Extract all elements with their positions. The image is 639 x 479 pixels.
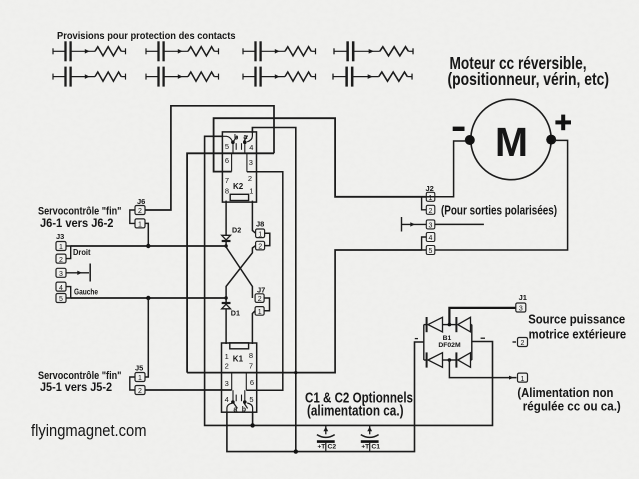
svg-text:6: 6 [225,156,229,165]
svg-text:2: 2 [429,208,433,215]
relay K2 pin numbers right [248,143,253,196]
relay K2 coil [230,194,248,200]
junction: Droit wire at D2 [224,244,227,247]
svg-text:2: 2 [225,362,229,371]
svg-text:B1: B1 [443,335,452,342]
svg-text:J7: J7 [257,285,265,294]
wire: motor plus to J2 pin 5 [435,140,568,250]
relay K2 contact a (pivot, arm, fixed stubs) [242,133,253,154]
connector J1 pin 2 [518,338,528,347]
relay K1 pin numbers right [249,351,254,404]
RC snubber network unit 5 (capacitor + resistor) [53,67,126,87]
jumper bracket J6 pins 2-1 [130,210,135,223]
RC snubber network unit 4 (capacitor + resistor) [334,41,413,61]
connector J8 pin 1 [256,229,265,238]
svg-text:J5: J5 [135,364,143,373]
motor plus polarity mark [555,115,571,131]
connector J6 pin 1 [135,219,145,228]
RC snubber network unit 6 (capacitor + resistor) [146,67,219,87]
junction: J6-1 on Droit wire [146,244,150,248]
svg-text:1: 1 [138,375,142,382]
junction: J5-1 riser on Gauche wire [146,296,150,300]
jumper bracket J2 pins 1-2 [422,197,427,210]
svg-text:2: 2 [138,388,142,395]
svg-text:3: 3 [59,271,63,278]
wire stub: J2 pin 3 left with terminal bar [402,217,427,232]
relay K2 inner column walls [232,153,247,172]
tick: B1 left AC terminal [415,338,418,340]
wire: J6-2 up and over to K2 contact row [145,106,274,210]
svg-text:1: 1 [59,244,63,251]
svg-text:5: 5 [225,142,229,151]
connector J2 pin 5 [426,246,435,255]
junction: B1 top node [448,323,452,327]
relay K2 body [222,132,256,202]
svg-text:M: M [495,119,528,165]
bridge rectifier B1 right rail [471,325,473,360]
RC snubber network unit 7 (capacitor + resistor) [243,67,316,87]
wire: K2 pin 2 down to K1 pin 5 row [246,172,282,390]
connector J8 pin 2 [256,241,265,250]
svg-text:3: 3 [519,306,523,313]
svg-text:1: 1 [225,352,229,361]
wire: J6-1 drop to Droit wire [145,223,148,246]
svg-text:K1: K1 [233,355,244,364]
wire: B1 bottom node to J1 pin 1 [449,360,516,378]
connector J2 pin 4 [426,233,435,242]
svg-text:J8: J8 [256,220,264,229]
svg-text:2: 2 [59,257,63,264]
svg-text:2: 2 [138,208,142,215]
arrow tick at J1 pin 1 [509,376,514,380]
motor left terminal node [465,135,475,145]
wire: J5-2 to K1 pin 4 row [145,389,232,391]
connector J5 pin 2 [135,386,145,395]
capacitor C1 bottom lead [369,443,371,452]
jumper bracket J3 pins 1-2 [66,246,71,259]
svg-text:6: 6 [250,378,254,387]
wire: motor minus to J2 pin 1 [426,141,466,197]
tick: B1 right terminal [481,337,485,339]
connector J3 pin 4 [56,282,66,291]
capacitor C2 straight plate [317,440,335,443]
relay K1 contact a (pivot, arm, fixed stubs) [227,390,238,411]
svg-text:5: 5 [59,296,63,303]
svg-text:4: 4 [249,143,253,152]
connector J3 pin 3 [56,268,66,277]
svg-text:Gauche: Gauche [74,287,98,297]
svg-text:1: 1 [258,231,262,238]
svg-text:DF02M: DF02M [438,342,461,349]
svg-text:D1: D1 [231,308,240,317]
relay K1 inner column walls [232,373,247,391]
capacitor C2 curved plate [317,435,335,438]
svg-text:(Pour sorties polarisées): (Pour sorties polarisées) [441,203,557,217]
connector J5 pin 1 [135,373,145,382]
svg-text:Source puissance: Source puissance [528,311,625,326]
relay K1 body [222,343,257,412]
bridge diode bottom-left [427,352,443,367]
svg-text:4: 4 [59,285,63,292]
svg-text:D2: D2 [232,225,241,234]
motor minus polarity mark [453,127,465,131]
bridge diode bottom-right [456,352,470,367]
wire: Gauche junction down to J5-1 [145,298,148,377]
svg-text:8: 8 [249,351,253,360]
jumper bracket J3 pins 4-5 [66,287,71,298]
capacitor C2 bottom lead [325,443,327,452]
junction: pin4 net on lower rail [294,449,298,453]
wire: B1 top node to J1 pin 3 [449,308,515,325]
svg-text:régulée cc ou ca.): régulée cc ou ca.) [523,399,621,414]
svg-text:K2: K2 [233,182,244,191]
svg-text:4: 4 [429,235,433,242]
RC snubber network unit 8 (capacitor + resistor) [333,67,412,87]
wire: K1 contact a to lower rail and B1 - terminal [227,342,424,452]
svg-text:flyingmagnet.com: flyingmagnet.com [31,422,147,440]
svg-text:(positionneur, vérin, etc): (positionneur, vérin, etc) [448,69,610,89]
bridge rectifier B1 bottom rail [424,359,472,361]
wire: K1 contact row (pins 3-6) over to J2 pin 5 [187,250,422,373]
svg-text:Provisions pour protection des: Provisions pour protection des contacts [57,31,236,42]
junction: Gauche wire at D1 [224,296,227,299]
connector J2 pin 3 [426,220,435,229]
junction: pin4 net at K1 row crossing [294,371,297,374]
svg-text:5: 5 [429,248,433,255]
svg-text:1: 1 [258,309,262,316]
connector J1 pin 3 [516,303,526,312]
connector J3 pin 1 [56,242,66,251]
wire: K2 coil pin 8 to diode D2 [225,201,227,235]
jumper bracket J5 pins 1-2 [130,377,135,390]
svg-text:1: 1 [138,222,142,229]
svg-text:2: 2 [258,296,262,303]
svg-text:2: 2 [258,244,262,251]
svg-text:2: 2 [248,174,252,183]
svg-text:Droit: Droit [73,247,91,257]
svg-text:3: 3 [249,158,253,167]
svg-text:motrice extérieure: motrice extérieure [529,326,627,341]
connector J2 pin 2 [426,205,435,214]
wire: J7-1 down to K1 coil pin 8 [252,311,255,344]
svg-text:C1: C1 [371,444,380,451]
jumper bracket J2 pins 4-5 [422,237,427,250]
bridge rectifier B1 top rail [424,324,472,326]
jumper bracket J8 pins 1-2 [265,233,270,245]
svg-text:J3: J3 [56,232,64,241]
svg-text:5: 5 [249,395,253,404]
svg-text:+T: +T [318,444,326,451]
RC snubber network unit 2 (capacitor + resistor) [146,41,219,61]
bridge diode top-right [456,317,470,332]
relay K1 pin numbers left [225,352,229,404]
wire: K2 contact row (pins 6-3) and left drop to K1 pin 3 [187,153,274,372]
capacitor C1 top lead with arrow [369,426,371,434]
connector J7 pin 2 [255,294,264,303]
svg-text:1: 1 [521,376,525,383]
wire: J8-2 to crossover to D1 and K1 coil pin 1 [226,246,256,303]
wire stub: J2 pin 3 right [435,223,484,225]
wire: D2 cathode to crossover toward J7-2 [226,242,252,298]
svg-text:J6: J6 [137,197,145,206]
relay K1 coil [230,343,249,349]
wire: K1 contact b down to positive rail [252,412,254,425]
svg-text:1: 1 [429,195,433,202]
motor M1 circle [471,99,551,179]
connector J3 pin 5 [56,294,66,303]
wire: Droit (J3 1-2 to D2 junction) [71,245,226,247]
junction: contact b on positive rail [250,423,254,427]
svg-text:1: 1 [249,187,253,196]
motor right terminal node [546,135,556,145]
wire: D1 to K1 coil pin 1 [225,309,227,344]
jumper bracket J7 pins 2-1 [264,298,269,311]
relay K2 contact b (pivot, arm, fixed stubs) [222,136,237,154]
svg-text:J2: J2 [426,184,434,193]
connector J1 pin 1 [518,373,528,382]
relay K2 pin numbers left [225,142,229,195]
svg-text:8: 8 [225,186,229,195]
svg-text:2: 2 [521,340,525,347]
diode D2 [222,235,231,241]
svg-text:+T: +T [361,444,369,451]
bridge rectifier B1 left rail [423,325,425,360]
tick: J1 pin 2 lead [513,341,517,343]
svg-text:C2: C2 [328,444,337,451]
connector J6 pin 2 [135,206,145,215]
junction: B1 bottom node [448,358,452,362]
svg-text:J5-1 vers J5-2: J5-1 vers J5-2 [40,380,112,394]
wire: K2 pin 4 up over and down to bottom rail [252,128,295,452]
svg-text:7: 7 [249,362,253,371]
svg-text:J1: J1 [519,293,527,302]
wire: K2 pin 5 down to positive rail and B1 + terminal [205,136,493,425]
relay K1 contact b (pivot, arm, fixed stubs) [242,390,253,411]
connector J2 pin 1 [426,192,435,201]
svg-text:3: 3 [225,379,229,388]
svg-text:b: b [242,407,246,414]
capacitor C1 curved plate [361,435,379,438]
svg-text:3: 3 [429,223,433,230]
connector J3 pin 2 [56,254,66,263]
svg-text:(alimentation ca.): (alimentation ca.) [307,404,404,420]
RC snubber network unit 1 (capacitor + resistor) [53,41,126,61]
svg-text:7: 7 [225,176,229,185]
wire: Gauche (J3 4-5 to D1 junction) [71,297,226,299]
RC snubber network unit 3 (capacitor + resistor) [243,41,316,61]
wire: K2 pin 7 up and over to J2 pin 1 [214,118,427,197]
wire stub: J3 pin 3 with arrow and terminal bar [66,264,90,282]
capacitor C2 top lead with arrow [325,426,327,434]
svg-text:4: 4 [225,395,229,404]
connector J7 pin 1 [255,307,264,316]
svg-text:J6-1 vers J6-2: J6-1 vers J6-2 [40,216,114,230]
bridge diode top-left [427,317,443,332]
diode D1 [222,303,231,309]
capacitor C1 straight plate [361,440,379,443]
wire: K2 coil pin 1 down to J8-1 [252,201,255,234]
